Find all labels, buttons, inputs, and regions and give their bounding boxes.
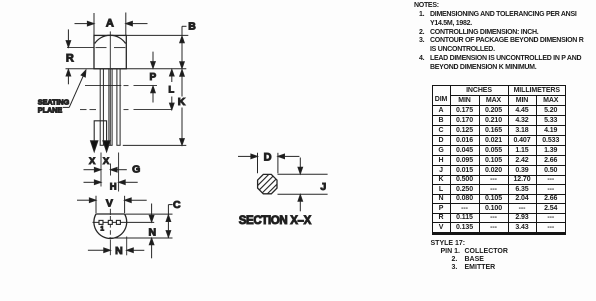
dimension D [238, 153, 299, 174]
svg-text:J: J [320, 181, 326, 193]
svg-text:N: N [115, 245, 123, 257]
dimension N (bottom) [88, 237, 144, 256]
dimension G [84, 153, 127, 187]
section cut X-X staple [94, 121, 106, 141]
package body outline [94, 35, 126, 68]
dimension K [123, 70, 187, 146]
lead 3 (right) [116, 69, 120, 146]
bottom view lead line [93, 221, 155, 223]
section arrow left [91, 141, 98, 152]
svg-text:P: P [149, 72, 156, 83]
dimension B [126, 26, 188, 68]
octagon hatching [227, 160, 307, 210]
lead square 3 [116, 220, 120, 224]
seating plane line [66, 68, 187, 70]
svg-text:B: B [188, 21, 196, 33]
svg-text:X: X [103, 156, 110, 167]
lead 1 (left) [100, 69, 104, 146]
section lead octagon [258, 174, 277, 193]
notes text block [414, 2, 596, 72]
dome arc [95, 35, 126, 43]
style 17 pinout block [431, 240, 466, 273]
svg-text:1: 1 [100, 226, 104, 233]
svg-text:A: A [106, 18, 114, 30]
svg-text:PLANE: PLANE [38, 105, 63, 114]
section arrow right [103, 141, 110, 152]
svg-text:G: G [132, 164, 140, 176]
lead square 2 [108, 220, 112, 224]
horizontal centerline [67, 47, 94, 49]
dimension L [80, 69, 174, 109]
svg-text:X: X [89, 156, 96, 167]
dimension V [77, 196, 147, 213]
dimension H [84, 153, 138, 192]
svg-text:V: V [106, 197, 113, 209]
svg-text:K: K [178, 96, 186, 108]
dimension N (side) [149, 204, 154, 259]
dimension P [85, 52, 157, 103]
svg-text:L: L [168, 84, 174, 95]
svg-text:H: H [110, 181, 117, 192]
svg-text:R: R [66, 53, 74, 65]
dimension A [75, 13, 148, 36]
bottom view body [94, 214, 127, 238]
svg-text:SECTION X–X: SECTION X–X [239, 215, 312, 227]
svg-text:D: D [264, 152, 272, 164]
svg-text:N: N [149, 226, 157, 238]
dimension R [66, 29, 71, 84]
svg-text:C: C [173, 199, 181, 211]
bottom view centerline [109, 209, 111, 215]
dimension table [432, 85, 567, 235]
lead 2 (middle) [108, 69, 112, 146]
seating plane leader [63, 69, 88, 107]
dimension C [109, 205, 173, 238]
dimension J [278, 158, 328, 212]
lead square 1 [99, 220, 103, 224]
vertical centerline [109, 31, 111, 68]
